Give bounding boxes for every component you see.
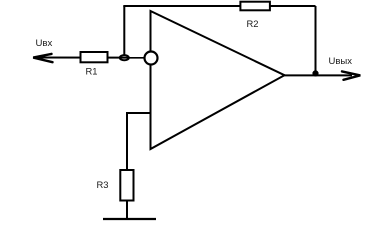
svg-text:R3: R3 (97, 179, 109, 190)
node junction ellipse on input (120, 55, 129, 60)
svg-text:Uвых: Uвых (329, 56, 353, 67)
resistor R1 (81, 52, 108, 62)
arrowhead output right (Uвых) (342, 71, 360, 79)
wire non-inverting input (127, 113, 151, 170)
node circle at inverting input (145, 52, 158, 65)
op-amp U1 triangle (151, 11, 285, 149)
wire output horizontal (285, 74, 353, 76)
wire input horizontal (33, 57, 145, 59)
resistor R3 (120, 170, 133, 201)
arrowhead input left (Uвх) (33, 54, 52, 62)
svg-text:R1: R1 (86, 66, 98, 77)
wire feedback left vertical (123, 6, 125, 55)
resistor R2 (240, 2, 270, 11)
svg-text:Uвх: Uвх (36, 38, 53, 49)
ground (103, 218, 156, 220)
svg-text:R2: R2 (247, 18, 259, 29)
wire feedback right vertical (315, 6, 317, 76)
node output junction dot (312, 70, 318, 76)
wire feedback top horizontal (123, 5, 315, 7)
wire R3 to ground (126, 201, 128, 220)
